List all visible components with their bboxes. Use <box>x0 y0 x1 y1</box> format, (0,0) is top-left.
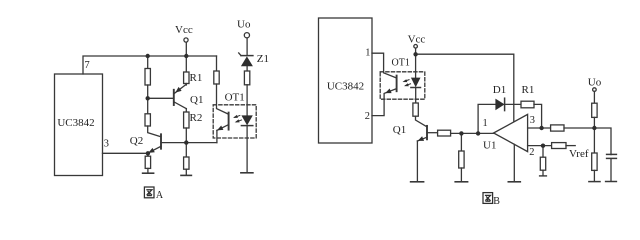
svg-text:OT1: OT1 <box>225 91 245 103</box>
svg-text:UC3842: UC3842 <box>327 81 364 93</box>
svg-text:1: 1 <box>483 118 488 129</box>
svg-text:R1: R1 <box>190 72 203 84</box>
svg-text:Q2: Q2 <box>130 135 143 147</box>
svg-text:D1: D1 <box>493 84 506 96</box>
svg-text:Q1: Q1 <box>190 94 203 106</box>
svg-text:7: 7 <box>85 60 90 71</box>
svg-text:Vcc: Vcc <box>175 24 193 36</box>
svg-text:A: A <box>156 190 164 201</box>
svg-text:OT1: OT1 <box>392 58 410 69</box>
svg-text:Vcc: Vcc <box>408 34 426 46</box>
svg-text:3: 3 <box>530 115 535 126</box>
svg-text:3: 3 <box>104 139 109 150</box>
svg-text:Vref: Vref <box>569 148 589 160</box>
svg-text:UC3842: UC3842 <box>57 117 94 129</box>
svg-text:Z1: Z1 <box>257 53 269 65</box>
svg-text:1: 1 <box>365 48 370 59</box>
svg-text:B: B <box>493 196 500 207</box>
svg-text:R1: R1 <box>522 84 535 96</box>
svg-text:R2: R2 <box>190 112 203 124</box>
svg-text:2: 2 <box>529 147 534 158</box>
svg-text:U1: U1 <box>483 139 496 151</box>
svg-text:Uo: Uo <box>588 76 602 88</box>
svg-text:2: 2 <box>365 111 370 122</box>
svg-text:Q1: Q1 <box>393 124 406 136</box>
svg-text:Uo: Uo <box>237 19 251 31</box>
